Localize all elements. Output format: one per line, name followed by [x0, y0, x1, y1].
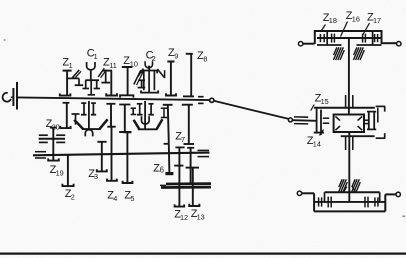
svg-text:12: 12 [180, 213, 188, 222]
svg-text:5: 5 [130, 194, 134, 203]
svg-text:15: 15 [321, 97, 329, 106]
svg-text:7: 7 [181, 135, 185, 144]
svg-text:2: 2 [152, 54, 156, 63]
svg-text:8: 8 [203, 55, 207, 64]
svg-text:19: 19 [56, 168, 64, 177]
svg-text:9: 9 [174, 51, 178, 60]
svg-text:6: 6 [160, 166, 164, 175]
svg-text:3: 3 [94, 172, 98, 181]
svg-text:17: 17 [373, 16, 381, 25]
svg-text:14: 14 [313, 139, 321, 148]
svg-text:11: 11 [109, 61, 117, 70]
svg-text:13: 13 [197, 213, 205, 222]
svg-text:2: 2 [71, 193, 75, 202]
svg-text:4: 4 [113, 194, 117, 203]
svg-text:1: 1 [94, 52, 98, 61]
svg-text:1: 1 [69, 61, 73, 70]
svg-text:16: 16 [352, 14, 360, 23]
svg-text:10: 10 [130, 60, 138, 69]
svg-text:20: 20 [52, 123, 60, 132]
svg-text:18: 18 [329, 16, 337, 25]
